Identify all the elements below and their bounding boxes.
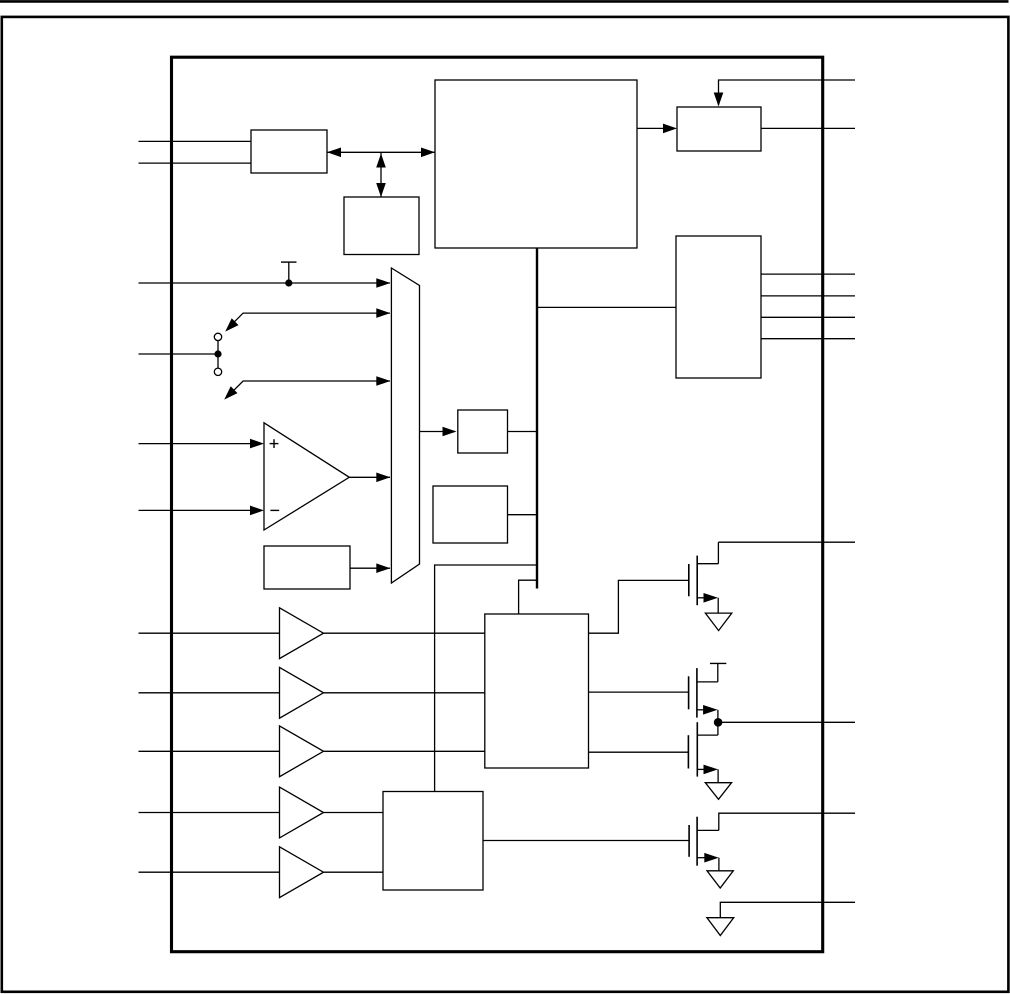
block U3 core <box>435 80 637 248</box>
wire input to buffer A3 <box>139 750 280 752</box>
wire U5 output pin 2 <box>761 295 855 297</box>
wire A5 output to U10 <box>324 871 384 873</box>
wire pin to U4 top <box>719 80 856 105</box>
wire input to buffer A4 <box>139 812 280 814</box>
wire U9 to Q2 gate <box>589 691 689 693</box>
ARROWS <box>224 93 723 574</box>
arrowhead mux line 3 <box>376 376 390 386</box>
wire U2 vertical bidirectional <box>380 152 382 197</box>
wire U9 to Q3 gate <box>589 751 689 753</box>
wire A4 output to U10 <box>324 812 384 814</box>
arrowhead op-amp output into mux <box>376 473 390 483</box>
wire A2 output to U9 <box>324 692 485 694</box>
wire U5 output pin 1 <box>761 273 855 275</box>
arrowhead switch upper diagonal <box>225 318 238 331</box>
block U8 <box>433 486 508 543</box>
wire op-amp - input pin <box>139 509 263 511</box>
buffer A4 <box>280 787 324 838</box>
wire mux line 2 with bend <box>229 313 391 328</box>
buffer A2 <box>280 667 324 718</box>
block U9 gate control <box>485 614 589 768</box>
wire junction output pin <box>718 721 855 723</box>
block U4 output register <box>677 107 761 151</box>
wire U5 output pin 4 <box>761 338 855 340</box>
wire U6 to bus <box>508 431 538 433</box>
wire U8 to bus <box>508 514 538 516</box>
block U1 interface <box>251 130 327 173</box>
wire input to mux line 1 <box>139 282 391 284</box>
block U6 <box>458 410 508 453</box>
arrowhead into U4 left <box>663 124 677 134</box>
buffer A3 <box>280 726 324 777</box>
arrowhead U7 output into mux <box>376 563 390 573</box>
supply tap T2 for Q2 <box>710 663 726 682</box>
arrowhead op-amp + input <box>250 439 264 449</box>
wire U1-U3 bidirectional bus <box>327 151 435 153</box>
wire ground pin stub <box>720 902 855 917</box>
wire op-amp + input pin <box>139 443 263 445</box>
arrowhead mux line 2 <box>376 308 390 318</box>
block U2 memory <box>344 197 419 255</box>
FETS <box>688 542 855 935</box>
wire op-amp output to mux <box>349 476 390 478</box>
block U10 logic <box>383 792 483 891</box>
buffer A5 <box>280 847 324 898</box>
wire input to buffer A2 <box>139 692 280 694</box>
wire Q4 drain output pin <box>719 813 855 830</box>
transistor Q4 <box>689 817 719 871</box>
switch SW1 <box>214 333 221 375</box>
arrowhead right on U1-U3 bus <box>421 148 435 158</box>
wire U10 to Q4 gate <box>483 840 689 842</box>
ground G3 <box>705 783 731 800</box>
test point T1 on line 1 <box>281 262 297 287</box>
wire mux output to U6 <box>420 431 456 433</box>
header rule <box>0 0 1009 3</box>
arrowhead mux line 1 <box>376 278 390 288</box>
wire A1 output to U9 <box>324 632 485 634</box>
wire U7 output to mux <box>350 567 390 569</box>
bus vertical from U3 <box>536 248 538 589</box>
wire bus branch to U10 <box>435 565 537 792</box>
transistor Q2 <box>689 668 718 735</box>
arrowhead down on U2 link <box>376 183 386 197</box>
op-amp U12 <box>264 423 349 530</box>
node dot Q2-Q3 junction <box>714 718 723 727</box>
wire input to buffer A1 <box>139 632 280 634</box>
wire Q1 drain output pin <box>718 541 855 543</box>
wire switch input pin <box>139 353 219 355</box>
arrowhead switch lower diagonal <box>224 386 237 399</box>
buffer A1 <box>280 608 324 659</box>
wire mux line 3 with bend <box>228 381 391 397</box>
wire U3 to U4 <box>637 127 675 129</box>
arrowhead into U4 top <box>714 93 724 107</box>
wire U9 to Q1 gate <box>589 580 689 633</box>
wire input pin 1 to U1 <box>139 140 252 142</box>
IC boundary <box>172 57 823 952</box>
arrowhead left on U1-U3 bus <box>327 148 341 158</box>
transistor Q3 <box>688 722 718 783</box>
mux U11 <box>391 268 419 583</box>
ground G4 <box>707 871 733 888</box>
wire bus to U9 top <box>519 580 537 614</box>
arrowhead mux output into U6 <box>443 427 457 437</box>
wire input to buffer A5 <box>139 871 280 873</box>
transistor Q1 <box>689 542 719 613</box>
ground G1 <box>705 613 731 631</box>
wire U5 output pin 3 <box>761 316 855 318</box>
wire A3 output to U9 <box>324 750 485 752</box>
wire input pin 2 to U1 <box>139 162 252 164</box>
wire U4 output pin <box>761 127 855 129</box>
arrowhead op-amp - input <box>250 506 264 516</box>
ground G5 <box>707 918 734 936</box>
wire bus to U5 <box>537 306 676 308</box>
block U5 port driver <box>676 236 761 378</box>
block U7 <box>264 546 350 589</box>
arrowhead up on U2 link <box>376 154 386 168</box>
